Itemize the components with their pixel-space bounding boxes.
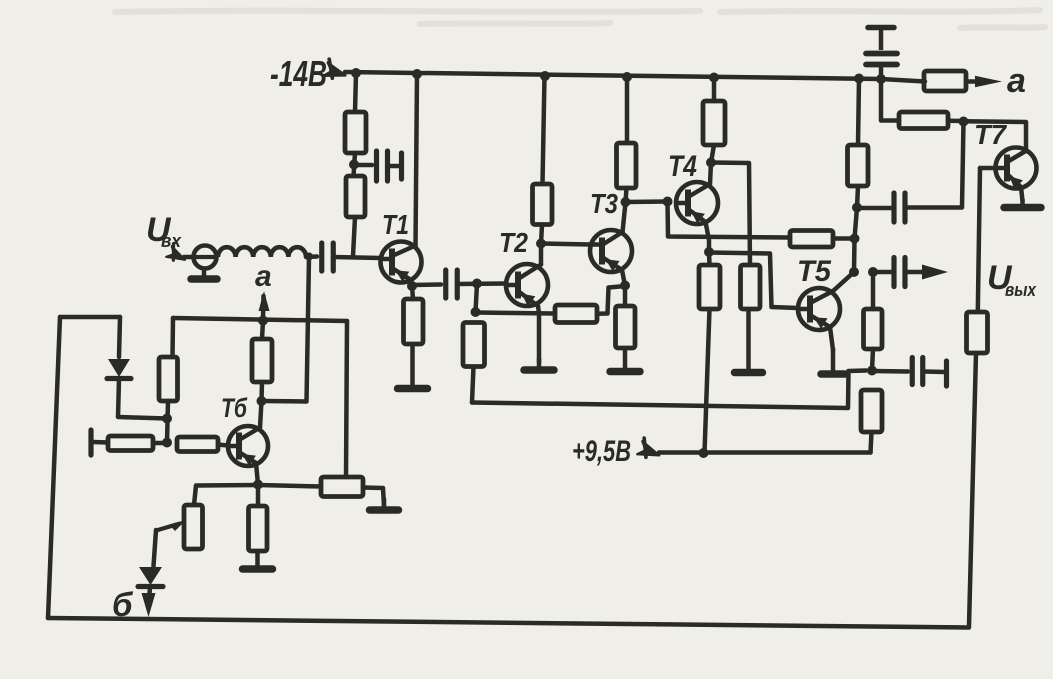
ground T2 emitter [524,358,554,370]
wire inductor to C2 [306,254,317,259]
transistor T3 [589,230,632,272]
wire R4 to junction [541,225,542,244]
wire T4 collector up [710,163,711,185]
junction T6 emitter [253,480,263,490]
terminal bar after C5 [944,361,949,386]
capacitor C3 [446,270,458,298]
junction T6 collector [257,396,267,406]
wire R12 to T5 collector node [833,236,854,241]
junction R5 top [471,307,481,317]
wire R13 to C4 node [857,186,858,208]
ground T1 emitter [398,344,428,389]
wire R22 to junction [153,441,167,446]
wire R26 to ground [363,488,384,507]
resistor R26 [321,477,363,497]
arrow output after C6 [922,265,948,280]
junction T1 emitter [407,281,417,291]
wire rail to R1 [355,73,356,112]
svg-text:а: а [255,260,272,293]
wire T7 emitter stub [1021,187,1023,201]
resistor R6 [555,305,597,323]
ground of source G1 [191,268,217,279]
wire terminal to R22 [93,440,108,445]
resistor R12 [790,231,833,248]
svg-text:+9,5В: +9,5В [572,435,631,468]
resistor R22 [108,436,153,451]
wire a-node arrow shaft [261,296,266,320]
wire T1 emitter to C3 [412,282,441,287]
transistor T6 [227,426,268,466]
wire T4 base feedback [668,202,791,238]
junction T5 collector node [849,267,859,277]
junction T2 base [472,279,482,289]
resistor R5 [463,323,485,367]
wire R9 to rail [712,78,717,102]
capacitor C4 [894,193,905,222]
wire C1 stub [388,164,400,169]
svg-text:Т3: Т3 [590,188,618,219]
trimmer arrow R24 [169,520,186,531]
junction rail x627 [622,72,632,82]
wire C4 node down to T5 collector [854,208,857,273]
wire T3 collector to T4 base [626,199,668,204]
svg-text:Т1: Т1 [382,209,409,240]
capacitor C6 [894,258,905,287]
resistor R1 [345,112,366,153]
junction input node [305,253,313,261]
wire R9 to junction [711,145,714,163]
wire T6 emitter left [194,485,258,505]
wire a-node line to R21 [170,318,175,357]
capacitor C7 rail bypass [866,28,897,80]
wire R15 to +9.5V corner [871,432,872,453]
wire R5 junction to R6 [476,313,556,314]
junction rail x356 [351,68,361,78]
transistor T2 [505,264,548,306]
ground R10 [735,309,763,373]
wire a-node horizontal [173,318,347,321]
wire input node down to T6 collector [263,257,309,402]
wire rail down to R16 [881,79,899,121]
svg-text:Т2: Т2 [499,227,528,258]
resistor R9 [703,101,725,145]
svg-text:Т4: Т4 [668,150,697,183]
wire R21 to chain junction [167,401,168,443]
wire D1 to R21 junction [118,417,167,419]
wire trimmer to D2 [154,530,157,566]
resistor R17 [924,71,966,91]
resistor R11 [699,265,720,309]
source generator G1 [192,246,218,269]
capacitor C5 [912,358,923,385]
wire T6 emitter to R25 [256,485,261,506]
junction R1-R2-C1 [349,160,359,170]
wire T2 emitter down [538,306,539,362]
wire T4 emitter to R11 [707,252,712,265]
junction rail x859 [854,74,864,84]
capacitor C1 [377,151,388,181]
junction +9.5V [699,448,709,458]
svg-text:вых: вых [1005,280,1037,300]
wire R20 top to a-node [262,321,263,339]
junction rail x714 [709,73,719,83]
wire diode D1 branch [119,317,120,357]
ground T5 emitter [821,348,845,374]
resistor R21 [159,357,178,401]
wire -14V rail [345,72,881,79]
wire T1 emitter down [412,286,413,299]
wire T6 emitter right [258,485,321,487]
svg-text:Т7: Т7 [974,119,1007,150]
diode D1 [107,359,131,417]
wire rail to R13 [858,79,859,146]
resistor R25 [249,506,268,551]
resistor R19 output [967,312,988,353]
wire R19 down to bottom bus [969,353,976,626]
junction rail x417 [412,69,422,79]
wire +9.5V rail [659,450,871,455]
wire T7 base [980,166,996,171]
junction T4 emitter [704,247,714,257]
resistor R15 [861,390,882,432]
arrow output a [975,76,1002,88]
svg-text:а: а [1007,62,1026,100]
wire R16 to junction [948,119,964,124]
wire R6 to T3 emitter [597,287,620,314]
transistor T7 [995,148,1037,190]
wire T3 emitter to R8 [623,286,628,307]
inductor L1 [218,247,306,257]
wire feedback bus [472,371,866,409]
capacitor C2 [322,243,334,271]
resistor R2 [346,176,365,217]
terminal bar left chain [88,430,93,455]
resistor R14 [864,309,883,349]
wire R7 to rail [625,77,630,143]
wire R14 top to T5 node [871,272,876,309]
wire a-node right corner down [346,321,347,477]
arrow output б [142,593,156,617]
wire T1 collector to rail [416,74,418,246]
resistor R23 [177,437,218,452]
wire T5 node to C6 [873,270,891,275]
wire T3 emitter stub [622,270,625,286]
junction T7 collector feed [959,117,969,127]
wire rail to R17 [881,79,925,82]
wire R11 to +9.5V rail [705,309,710,453]
junction R14-R15-C5 [867,366,877,376]
junction R21 bottom [162,414,172,424]
resistor R20 [252,339,272,382]
junction T2 collector [536,239,546,249]
resistor R10 [741,265,761,309]
wire T5 collector diagonal [833,272,854,291]
wire T3 collector up [623,203,626,233]
junction T3 collector [621,197,631,207]
wire junction to C1 [354,163,372,168]
wire R17 to arrow a [966,79,979,84]
wire T1 emitter stub [411,280,412,286]
scan artifact streaks (decorative) [115,10,1045,28]
svg-text:Тб: Тб [221,393,248,423]
resistor R16 [899,112,948,129]
wire R20 to T6 collector [259,382,264,401]
junction C4 output row [868,267,878,277]
wire T4 collector to R10 [711,163,750,266]
wire left box edge [48,317,60,618]
ground T3 emitter [610,348,640,372]
wire T4 emitter to T5 base [709,253,798,309]
ground R26 [370,498,399,510]
wire T5 emitter down [830,327,833,350]
terminal arrow +9,5В [637,437,662,460]
diode D2 [138,567,163,601]
wire R5 bottom to feedback bus [472,367,474,403]
transistor T5 [797,288,840,330]
ground T7 emitter [1004,199,1041,208]
resistor R24 trimmer [184,505,203,549]
junction R12-T5 collector [850,234,860,244]
junction a-node [258,316,268,326]
wire R2 to T1 base node [353,217,355,256]
wire T6 emitter stub [256,463,258,485]
terminal arrow U_вх [166,243,189,264]
transistor T1 [380,242,422,283]
wire C2 to T1 base [333,257,381,258]
junction C4 row [852,203,862,213]
wire left box top [60,315,120,320]
resistor R4 [533,184,553,225]
svg-text:Т5: Т5 [797,255,832,288]
resistor R7 [617,143,637,188]
junction rail x881 [876,74,886,84]
wire junction to C5 [872,369,908,374]
wire T2 base down [476,284,478,313]
wire T4 emitter stub [706,222,710,252]
terminal arrow -14В [323,59,347,80]
wire C6 to arrow [905,270,926,275]
wire input terminal to source [184,255,194,260]
arrow node a [259,291,270,311]
junction resistor chain [162,438,172,448]
wire T2 collector to T3 base [541,244,590,245]
terminal bar after C1 [399,153,404,179]
junction rail x545 [540,71,550,81]
wire T2 collector up [539,244,544,265]
wire R1 to R2 [354,153,356,176]
resistor R3 [404,299,424,344]
resistor R8 [616,306,636,348]
wire C4 to T7 collector node [905,122,964,208]
svg-text:-14В: -14В [270,53,327,94]
transistor T4 [675,182,718,224]
wire R4 to rail [543,76,545,184]
wire C5 stub [923,369,945,374]
junction T4 collector [706,158,716,168]
junction T4 base [663,197,673,207]
wire bottom bus [48,618,969,628]
wire T6 collector up [260,401,262,428]
wire junction to T7 collector [964,121,1027,150]
wire C3 to T2 base [457,281,506,286]
wire R23 to T6 base [218,445,228,446]
wire node to C4 [857,206,891,211]
wire R7 to junction [626,188,627,202]
wire R14 to junction [872,349,873,371]
ground R25 [243,551,273,569]
resistor R13 [848,145,869,186]
junction T3 emitter [620,281,630,291]
wire T7 base to output column [978,168,980,312]
